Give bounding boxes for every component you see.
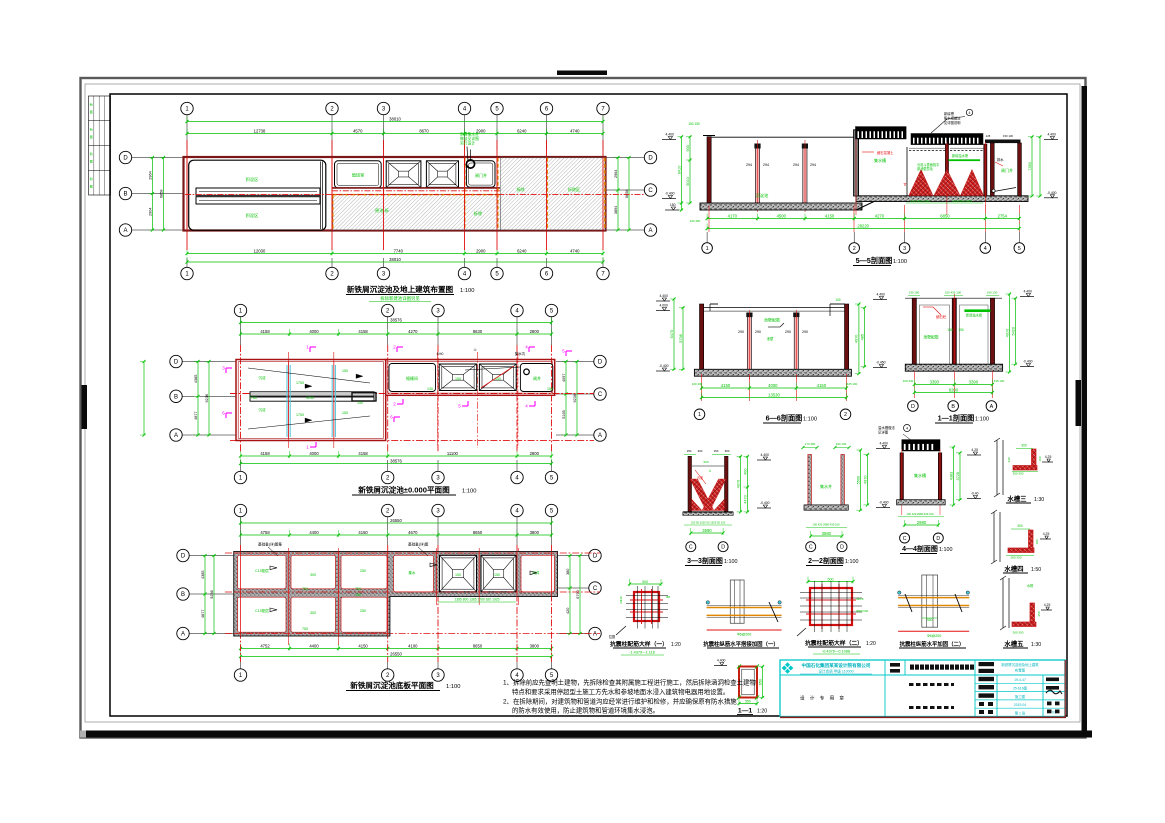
svg-text:1、拆除前应先查明土建物，先拆除检查其附属施工程进行施工，然: 1、拆除前应先查明土建物，先拆除检查其附属施工程进行施工，然后拆除涵洞检查土建物: [503, 678, 756, 687]
section 5-5 tank2 walls and label: [859, 138, 908, 196]
svg-text:4150: 4150: [358, 643, 368, 648]
svg-text:190 130: 190 130: [836, 442, 847, 446]
svg-text:4970: 4970: [855, 335, 859, 343]
section 4-4 walls: [900, 449, 942, 515]
svg-text:原池-拆: 原池-拆: [375, 207, 389, 214]
svg-text:1:50: 1:50: [1031, 567, 1041, 573]
svg-text:4: 4: [906, 427, 908, 431]
svg-text:新铁屑沉淀池及地上建筑: 新铁屑沉淀池及地上建筑: [1001, 662, 1039, 667]
section 5-5 right dimension stack: [1028, 135, 1042, 197]
plan1 axis circles top row 1-7: [181, 102, 609, 150]
section 5-5 left level marks: [662, 133, 679, 211]
svg-text:380: 380: [566, 569, 570, 575]
section 4-4 weir comb top: [902, 440, 940, 451]
svg-text:4270: 4270: [875, 213, 885, 218]
section 3-3 interior leaders: [692, 460, 724, 484]
svg-text:-0.450: -0.450: [876, 361, 886, 365]
svg-text:1300 800 1925: 1300 800 1925: [952, 199, 972, 203]
section 5-5 right level marks: [1044, 133, 1058, 198]
svg-text:4.400: 4.400: [717, 659, 726, 663]
svg-text:另行设计: 另行设计: [460, 141, 475, 146]
section 2-2 below labels and dims: [806, 523, 847, 539]
svg-text:1:20: 1:20: [757, 709, 767, 715]
svg-text:8650: 8650: [473, 530, 483, 535]
svg-text:750: 750: [302, 627, 308, 631]
section 1-1 bottom dimension overall: [913, 387, 994, 394]
svg-text:2019.04: 2019.04: [1014, 703, 1026, 707]
svg-text:D: D: [593, 554, 598, 560]
svg-text:C: C: [809, 545, 813, 551]
svg-text:9236: 9236: [210, 590, 214, 598]
section 5-5 tank top rim: [711, 136, 854, 138]
detail beam D2 title: [703, 640, 779, 648]
plan3 interior green labels: [255, 568, 540, 631]
svg-text:650: 650: [758, 679, 762, 685]
detail trough4 green dims: [1006, 524, 1039, 560]
section 1-1 axis circles D B A: [908, 401, 997, 412]
fold mark right middle: [1076, 380, 1082, 426]
svg-text:A: A: [123, 228, 127, 234]
plan1 room A with label: [335, 161, 382, 188]
svg-text:D: D: [598, 360, 603, 366]
title block outer frame: [780, 660, 1065, 717]
svg-text:3—3剖面图: 3—3剖面图: [687, 556, 723, 565]
svg-text:6—6剖面图: 6—6剖面图: [766, 414, 803, 423]
plan1 title text: [346, 284, 475, 302]
section 5-5 left dimension stack: [677, 122, 700, 212]
svg-text:290: 290: [802, 330, 808, 334]
svg-text:设 计 专 用 章: 设 计 专 用 章: [800, 695, 846, 702]
title block right column bars and text: [979, 662, 1040, 716]
section 5-5 bottom slab left: [700, 203, 862, 210]
svg-text:4170: 4170: [728, 213, 738, 218]
plan1 left axis circles D B A: [119, 151, 183, 236]
plan2 interior green labels: [249, 369, 553, 417]
svg-text:水槽: 水槽: [1027, 583, 1034, 588]
svg-text:-0.400: -0.400: [879, 501, 889, 505]
plan1 red axis overlay lines through body: [185, 157, 605, 231]
plan1 bottom dimension line segments: [185, 248, 604, 255]
section 3-3 axis circles C D: [686, 542, 728, 552]
section 3-3 right dims and level marks: [736, 453, 771, 513]
svg-text:3590: 3590: [702, 528, 712, 533]
plan2 flow arrows and slope lines: [248, 367, 520, 429]
svg-text:新: 新: [90, 176, 93, 181]
svg-text:闸井: 闸井: [533, 375, 541, 381]
plan1 axis circles bottom row 1-7: [181, 258, 609, 280]
sheet shadow right edge: [1082, 86, 1088, 737]
svg-text:新增溢水槽: 新增溢水槽: [966, 313, 983, 318]
svg-text:B: B: [181, 592, 185, 598]
sheet outer border frame: [81, 78, 1086, 738]
plan1 hatched demolition area right: [333, 158, 605, 230]
section 6-6 red axis drop lines: [702, 374, 847, 401]
svg-text:排水: 排水: [997, 157, 1004, 162]
svg-text:250: 250: [360, 609, 366, 613]
svg-text:沉淀: 沉淀: [258, 407, 266, 412]
section 5-5 left wall: [703, 136, 715, 204]
svg-text:28220: 28220: [857, 223, 869, 228]
svg-text:9236: 9236: [205, 394, 209, 402]
plan3 stippled foundation walls L-shape: [234, 552, 558, 637]
svg-text:拆除: 拆除: [517, 186, 525, 192]
svg-text:C: C: [648, 188, 653, 194]
detail column D3 title: [805, 639, 876, 654]
title block middle dashed rows: [909, 685, 954, 708]
svg-text:4000: 4000: [309, 329, 319, 334]
svg-text:新增溢水槽: 新增溢水槽: [952, 153, 969, 158]
svg-text:1:100: 1:100: [460, 288, 475, 294]
svg-text:1:30: 1:30: [1031, 642, 1041, 648]
detail trough5 title: [1003, 639, 1041, 648]
svg-text:150 130: 150 130: [1003, 134, 1014, 138]
svg-text:抗震柱纵筋水平加固（二）: 抗震柱纵筋水平加固（二）: [900, 640, 965, 648]
svg-text:原池壁凿毛: 原池壁凿毛: [917, 166, 934, 171]
svg-text:池壁配筋: 池壁配筋: [923, 335, 938, 340]
svg-text:A: A: [648, 228, 652, 234]
svg-text:D: D: [840, 545, 844, 551]
svg-text:100 450: 100 450: [690, 219, 701, 223]
svg-text:1—1剖面图: 1—1剖面图: [938, 414, 975, 423]
section 3-3 red hatch V band left: [690, 479, 714, 511]
svg-text:4670: 4670: [408, 530, 418, 535]
svg-text:6240: 6240: [517, 128, 527, 133]
svg-text:170 390: 170 390: [805, 442, 816, 446]
section 1-1 top green dims: [908, 291, 999, 296]
svg-text:3580: 3580: [822, 531, 832, 536]
plan2 wing compartment left: [389, 364, 436, 392]
svg-text:布置图: 布置图: [1015, 668, 1026, 673]
plan1 tank body outer wall: [184, 157, 606, 231]
section 4-4 title: [900, 544, 953, 554]
svg-text:C15垫层: C15垫层: [255, 568, 269, 573]
section 5-5 tank1 green label: [756, 192, 769, 199]
svg-text:150: 150: [342, 369, 348, 373]
svg-text:4.000: 4.000: [659, 304, 668, 308]
svg-text:溢水槽做法: 溢水槽做法: [878, 425, 896, 430]
svg-text:D: D: [911, 404, 915, 410]
svg-text:4—4剖面图: 4—4剖面图: [902, 544, 938, 553]
detail trough3 wall lines with break marks: [994, 438, 1003, 497]
plan1 wall under compartments red: [332, 188, 605, 191]
svg-text:2、在拆除期间，对建筑物和管道沟应经常进行维护和检修，并应确: 2、在拆除期间，对建筑物和管道沟应经常进行维护和检修，并应确保原有防水措施: [503, 697, 737, 706]
svg-text:A: A: [598, 433, 602, 439]
svg-text:见详图说明: 见详图说明: [944, 120, 961, 125]
svg-text:B: B: [123, 192, 127, 198]
svg-text:特点和要求采用停超型土施工方先水和参坡地面水浸入建筑物电器用: 特点和要求采用停超型土施工方先水和参坡地面水浸入建筑物电器用地设置。: [512, 687, 729, 696]
svg-text:4400: 4400: [309, 643, 319, 648]
section 5-5 leader note top with circle: [931, 109, 973, 133]
svg-text:基础垂(详)图集: 基础垂(详)图集: [258, 542, 282, 547]
plan2 axis circles bottom row: [234, 460, 557, 484]
detail column D1 title: [610, 640, 681, 655]
section 5-5 interior column 1: [746, 140, 769, 212]
svg-text:新: 新: [90, 126, 93, 131]
svg-text:-0.4379~-0.1088: -0.4379~-0.1088: [822, 650, 850, 654]
svg-text:集水坑: 集水坑: [515, 351, 526, 356]
svg-text:1:100: 1:100: [939, 547, 953, 553]
svg-text:2800: 2800: [530, 451, 540, 456]
svg-text:1385 800 1385 1760 620 1925: 1385 800 1385 1760 620 1925: [455, 598, 500, 602]
section 6-6 column 2: [785, 310, 808, 380]
detail trough3 green dims: [1007, 444, 1042, 476]
svg-text:435 100: 435 100: [994, 379, 1005, 383]
svg-text:5420: 5420: [1011, 327, 1015, 335]
svg-text:4150: 4150: [817, 383, 827, 388]
section 5-5 right tank top beam: [985, 140, 1021, 144]
svg-text:2904: 2904: [148, 208, 152, 216]
svg-text:4150: 4150: [358, 530, 368, 535]
svg-text:新铁屑沉淀池±0.000平面图: 新铁屑沉淀池±0.000平面图: [358, 485, 450, 495]
plan1 launder bars inside tank: [196, 188, 320, 204]
plan1 top dimension line segments: [185, 128, 604, 135]
section 5-5 serrated weir dashed lines: [909, 148, 984, 150]
svg-text:积泥区: 积泥区: [246, 212, 259, 219]
svg-text:的防水有效使用，防止建筑物和管道环境集水浸泡。: 的防水有效使用，防止建筑物和管道环境集水浸泡。: [512, 706, 659, 715]
section 6-6 bottom dimension overall: [700, 392, 848, 399]
svg-text:6858: 6858: [625, 190, 629, 198]
svg-text:细石混凝土: 细石混凝土: [877, 150, 894, 155]
svg-text:A: A: [990, 404, 994, 410]
svg-text:4158: 4158: [358, 329, 368, 334]
svg-text:26550: 26550: [390, 518, 402, 523]
section 5-5 interior column 2: [793, 140, 816, 212]
svg-text:300 300: 300 300: [1013, 472, 1024, 476]
svg-text:4.400: 4.400: [1047, 133, 1056, 137]
svg-text:集水槽: 集水槽: [914, 472, 926, 478]
svg-text:沉淀池: 沉淀池: [756, 192, 769, 199]
svg-text:D: D: [123, 156, 128, 162]
section 5-5 weir comb 1: [856, 127, 907, 139]
section 6-6 right dims and level marks: [855, 293, 887, 376]
svg-text:水槽四: 水槽四: [1004, 564, 1023, 573]
svg-text:B: B: [951, 404, 955, 410]
title block red border bottom right: [780, 660, 1066, 717]
svg-text:2—2剖面图: 2—2剖面图: [808, 556, 844, 565]
svg-text:3: 3: [903, 246, 906, 252]
section 5-5 axis circles: [702, 243, 1025, 254]
section 1-1 right wall: [990, 298, 994, 364]
svg-text:4150: 4150: [825, 213, 835, 218]
sheet shadow bottom edge: [80, 731, 1092, 738]
svg-text:新增槽: 新增槽: [944, 111, 955, 116]
svg-text:100 420 2980 430 100: 100 420 2980 430 100: [907, 512, 934, 516]
svg-text:1—1: 1—1: [738, 708, 753, 715]
svg-text:38576: 38576: [390, 317, 402, 322]
svg-text:5010: 5010: [686, 177, 690, 185]
svg-text:5: 5: [1018, 246, 1021, 252]
plan3 left axis circles D B A: [177, 549, 234, 639]
svg-text:集水槽: 集水槽: [874, 157, 886, 163]
plan2 launder bars: [250, 392, 376, 401]
svg-text:125: 125: [986, 134, 991, 138]
svg-text:550: 550: [927, 618, 933, 622]
svg-text:5165: 5165: [562, 410, 566, 418]
title block drawing title: [910, 665, 974, 670]
detail trough4 wall lines with break marks: [991, 510, 1000, 564]
svg-text:300: 300: [310, 611, 316, 615]
section 4-4 right dims and level marks: [949, 445, 981, 506]
plan2 bottom dimension overall 38576: [239, 458, 553, 465]
plan1 right axis circles D C A: [606, 151, 657, 236]
svg-text:360 300: 360 300: [1011, 556, 1022, 560]
svg-text:1:100: 1:100: [893, 259, 907, 265]
svg-text:B: B: [174, 394, 178, 400]
section 1-1 red axis drop lines: [914, 371, 992, 398]
plan1 right vertical dimensions: [614, 156, 631, 232]
section 4-4 below labels and dims: [898, 512, 944, 527]
svg-text:4.400: 4.400: [876, 293, 885, 297]
svg-text:250: 250: [360, 569, 366, 573]
svg-text:1:100: 1:100: [845, 559, 859, 565]
svg-text:500: 500: [703, 460, 708, 464]
section 1-1 middle wall: [952, 294, 956, 370]
svg-text:拆除区: 拆除区: [568, 186, 580, 192]
plan2 top dimension segments: [239, 329, 553, 336]
section 1-1 right dims and level marks: [1005, 290, 1034, 374]
section 5-5 sludge hopper red hatch 3: [961, 170, 984, 196]
svg-text:500: 500: [642, 580, 648, 584]
svg-text:1:30: 1:30: [1034, 497, 1044, 503]
svg-text:4385: 4385: [201, 571, 205, 579]
svg-text:①: ①: [473, 348, 476, 352]
svg-text:2754: 2754: [998, 213, 1008, 218]
svg-text:水槽三: 水槽三: [1007, 494, 1027, 503]
svg-text:A: A: [181, 632, 185, 638]
svg-text:150: 150: [342, 411, 348, 415]
svg-text:900: 900: [686, 145, 690, 151]
svg-text:C: C: [593, 586, 598, 592]
svg-text:4.25: 4.25: [1045, 455, 1052, 459]
section 6-6 interior label and slope mark: [764, 317, 784, 342]
svg-text:150: 150: [714, 449, 719, 453]
plan3 axis circles top row: [234, 504, 557, 545]
svg-text:C: C: [689, 545, 693, 551]
svg-text:D: D: [721, 545, 725, 551]
svg-text:1:100: 1:100: [975, 417, 989, 423]
svg-text:集水槽做法: 集水槽做法: [944, 116, 961, 121]
svg-text:5—5剖面图: 5—5剖面图: [856, 256, 893, 265]
detail 1-1 1:20 small section: [714, 659, 764, 706]
svg-text:抗震柱纵筋水平搭接加固（一）: 抗震柱纵筋水平搭接加固（一）: [703, 640, 778, 648]
section 2-2 right dims and level marks: [856, 442, 890, 512]
svg-text:池壁: 池壁: [767, 336, 774, 341]
svg-text:细石砼: 细石砼: [936, 314, 947, 319]
svg-text:1:100: 1:100: [803, 417, 817, 423]
section 3-3 bottom dimension: [689, 528, 724, 535]
svg-text:1:20: 1:20: [671, 642, 681, 648]
svg-text:2900: 2900: [476, 248, 486, 253]
section 6-6 title: [763, 414, 817, 424]
svg-text:做法见详图: 做法见详图: [460, 136, 479, 141]
plan3 red axis lines: [225, 545, 600, 662]
svg-text:4752: 4752: [260, 643, 270, 648]
section 5-5 sludge hopper red hatch 2: [934, 170, 960, 196]
svg-text:施工图: 施工图: [1015, 694, 1026, 699]
svg-text:500: 500: [828, 577, 834, 581]
fold mark top center: [557, 71, 607, 76]
svg-text:第 1 张: 第 1 张: [1015, 711, 1026, 716]
svg-text:3726: 3726: [956, 472, 960, 480]
svg-text:4500: 4500: [777, 213, 787, 218]
detail trough4 red angle section: [1008, 530, 1034, 553]
svg-text:4158: 4158: [260, 329, 270, 334]
plan3 top dimension overall 26550: [239, 518, 553, 525]
plan1 orange dashed demolition boundary lines: [333, 158, 605, 230]
plan1 red axis grid lines vertical: [187, 140, 603, 250]
svg-text:4.400: 4.400: [879, 442, 888, 446]
plan1 leader note green above axis 4: [460, 132, 479, 162]
detail beam splice D4: [898, 575, 970, 638]
section 4-4 top leader note: [878, 425, 912, 442]
svg-text:3800: 3800: [530, 530, 540, 535]
section 3-3 base slab: [683, 512, 733, 516]
section 5-5 sludge hopper red hatch 1: [909, 170, 933, 196]
svg-text:130: 130: [427, 387, 433, 391]
section 6-6 axis circles: [694, 409, 851, 420]
plan2 right axis circles D C A: [556, 355, 606, 441]
svg-text:4: 4: [969, 111, 971, 115]
plan2 left axis circles D B A: [170, 355, 236, 441]
section 5-5 right tank walls: [986, 134, 1022, 196]
svg-text:基础垂(详)图: 基础垂(详)图: [408, 542, 429, 547]
svg-text:4158: 4158: [260, 451, 270, 456]
svg-text:6%0: 6%0: [437, 352, 444, 356]
svg-text:100: 100: [1038, 456, 1042, 461]
svg-text:A: A: [174, 433, 178, 439]
svg-text:2964: 2964: [614, 170, 618, 178]
detail trough3 level mark: [1042, 455, 1053, 462]
svg-text:4877: 4877: [201, 610, 205, 618]
svg-text:新: 新: [90, 151, 93, 156]
section 3-3 red hatch V band right: [702, 479, 726, 511]
svg-text:8670: 8670: [419, 128, 429, 133]
svg-text:-0.400: -0.400: [1047, 191, 1057, 195]
svg-text:100 440: 100 440: [903, 379, 914, 383]
detail column reinforcement D1: [609, 579, 671, 639]
svg-text:150 50 1625 50 1625 50 150: 150 50 1625 50 1625 50 150: [691, 520, 726, 524]
section 5-5 weir comb 2: [911, 134, 983, 145]
svg-text:4270: 4270: [408, 329, 418, 334]
svg-text:4: 4: [984, 246, 987, 252]
svg-text:水槽五: 水槽五: [1004, 639, 1024, 648]
svg-text:4383: 4383: [949, 472, 953, 480]
section 3-3 top labels and ticks: [684, 449, 731, 455]
svg-text:400: 400: [743, 468, 747, 474]
detail trough3 title: [1006, 494, 1044, 503]
plan1 large left sedimentation tank room: [189, 160, 326, 230]
svg-text:13530: 13530: [768, 392, 780, 397]
section 5-5 green notes above hoppers: [903, 153, 980, 187]
plan2 right wing red walls: [386, 360, 555, 396]
section 2-2 interior label: [820, 483, 832, 489]
plan1 red axis line C horizontal: [332, 194, 644, 196]
svg-text:拆除新建池详图另见: 拆除新建池详图另见: [380, 295, 420, 302]
section 1-1 bottom slab footing: [905, 364, 1002, 371]
svg-text:4740: 4740: [570, 248, 580, 253]
plan2 top dimension overall 38576: [239, 317, 553, 324]
title block signature column: [1046, 678, 1062, 715]
svg-text:④: ④: [709, 469, 712, 473]
plan3 bottom dimension overall 26550: [239, 651, 553, 658]
svg-text:4877: 4877: [194, 411, 198, 419]
detail column reinforcement D3: [797, 577, 868, 637]
svg-text:1750: 1750: [296, 381, 304, 385]
svg-text:300 300: 300 300: [1013, 631, 1024, 635]
plan1 room B with label: [466, 161, 495, 188]
svg-text:150: 150: [958, 328, 964, 332]
svg-text:集水: 集水: [408, 570, 416, 575]
